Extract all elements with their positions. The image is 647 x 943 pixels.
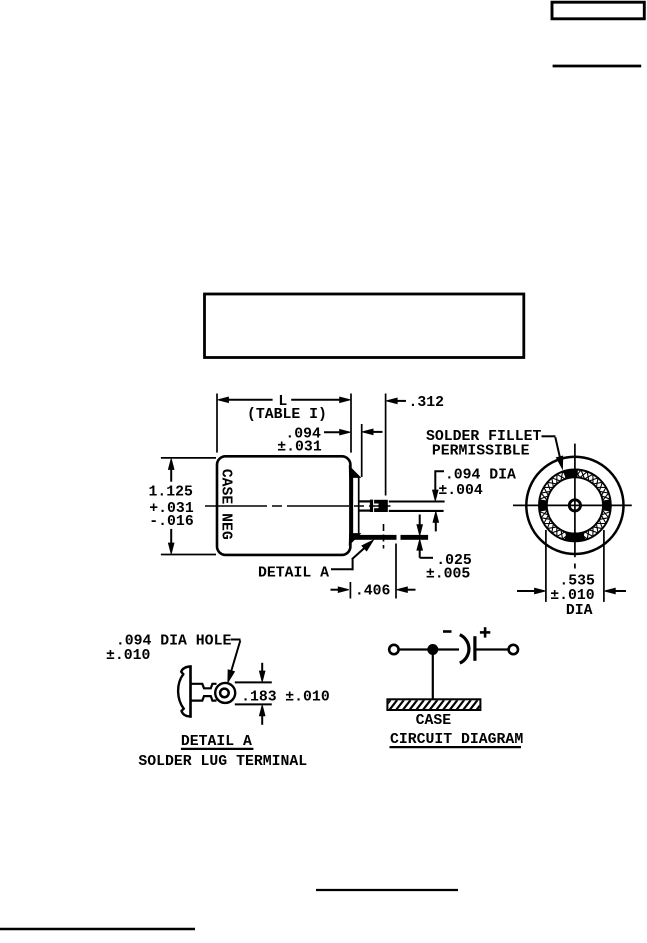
svg-text:.183: .183 bbox=[241, 689, 277, 705]
svg-text:CASE: CASE bbox=[416, 713, 452, 729]
svg-text:±.010: ±.010 bbox=[106, 648, 151, 664]
svg-text:DIA: DIA bbox=[566, 603, 593, 619]
svg-text:.535: .535 bbox=[559, 573, 595, 589]
svg-text:.094 DIA: .094 DIA bbox=[445, 468, 516, 484]
svg-text:-.016: -.016 bbox=[149, 514, 194, 530]
svg-text:DETAIL A: DETAIL A bbox=[181, 734, 252, 750]
svg-text:±.010: ±.010 bbox=[550, 588, 595, 604]
svg-text:CASE NEG: CASE NEG bbox=[218, 469, 234, 540]
svg-text:±.005: ±.005 bbox=[426, 567, 471, 583]
svg-text:±.004: ±.004 bbox=[438, 483, 483, 499]
svg-text:(TABLE I): (TABLE I) bbox=[247, 407, 327, 423]
svg-text:±.010: ±.010 bbox=[285, 689, 330, 705]
svg-text:DETAIL A: DETAIL A bbox=[258, 565, 329, 581]
svg-text:.312: .312 bbox=[409, 395, 445, 411]
svg-text:SOLDER LUG TERMINAL: SOLDER LUG TERMINAL bbox=[138, 754, 307, 770]
svg-text:PERMISSIBLE: PERMISSIBLE bbox=[432, 443, 530, 459]
svg-text:CIRCUIT DIAGRAM: CIRCUIT DIAGRAM bbox=[390, 732, 523, 748]
svg-text:.406: .406 bbox=[355, 584, 391, 600]
svg-text:1.125: 1.125 bbox=[149, 485, 194, 501]
svg-text:±.031: ±.031 bbox=[277, 439, 322, 455]
